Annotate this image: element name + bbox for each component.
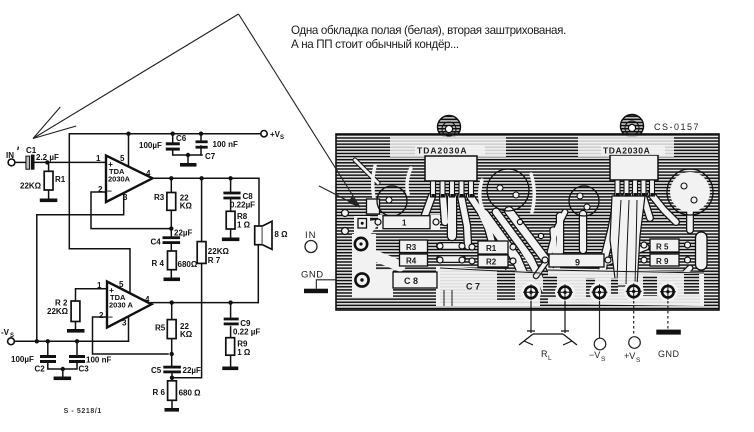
pad 3 — [594, 287, 606, 299]
pcb white trace fills left half — [352, 137, 564, 306]
wire C2 stub — [47, 341, 49, 355]
svg-text:Одна обкладка полая (белая), в: Одна обкладка полая (белая), вторая зашт… — [291, 24, 566, 37]
pcb cap footprint C9 — [549, 254, 604, 268]
svg-text:IN: IN — [305, 230, 317, 241]
wire R1 to ground — [48, 190, 50, 199]
svg-text:−: − — [107, 186, 112, 196]
node C2C3 ground — [61, 367, 65, 371]
pcb resistor footprint R? row1 — [383, 216, 430, 229]
pcb capacitor footprint at arrow — [367, 199, 380, 214]
node R3/C4 — [169, 226, 173, 230]
wire C1 to pin1 — [35, 161, 107, 163]
wire upper output — [152, 178, 259, 226]
wire R5 to C5 — [171, 339, 173, 366]
svg-text:1: 1 — [97, 281, 102, 290]
wire C8 stub — [230, 178, 232, 191]
annotation arrow to PCB capacitor — [239, 14, 361, 207]
pcb IC2 pin pads — [616, 193, 654, 196]
wire R5 stub — [171, 303, 173, 320]
pcb resistor footprint R2 — [478, 255, 508, 267]
svg-text:1 Ω: 1 Ω — [237, 221, 251, 230]
svg-text:R3: R3 — [154, 193, 165, 202]
svg-text:C2: C2 — [35, 365, 46, 374]
wire C4 to R4 — [170, 243, 172, 251]
pcb resistor footprint R1 — [478, 241, 508, 254]
svg-text:2030 A: 2030 A — [109, 301, 133, 310]
pcb resistor footprint R3 — [400, 240, 428, 253]
scan veil over pcb — [337, 135, 719, 309]
svg-text:А на ПП стоит обычный кондёр..: А на ПП стоит обычный кондёр... — [291, 38, 459, 51]
wire top rail — [69, 134, 261, 249]
resistor R2 — [47, 299, 80, 322]
pcb IC2 footprint — [610, 155, 658, 196]
ground R2 — [67, 329, 85, 333]
pcb IC1 footprint — [425, 156, 477, 197]
wire C3 bottom — [63, 363, 77, 369]
svg-text:C5: C5 — [151, 366, 162, 375]
node C6C7 ground — [186, 153, 190, 157]
wire R3 to C4 — [170, 210, 172, 236]
svg-text:R1: R1 — [55, 175, 66, 184]
svg-text:R 6: R 6 — [153, 388, 166, 397]
svg-text:5: 5 — [119, 280, 124, 289]
svg-text:22KΩ: 22KΩ — [208, 247, 230, 256]
pcb cap footprint C8 — [393, 272, 437, 288]
pcb tab pad rings — [442, 121, 639, 136]
node pin3 upper rail — [35, 339, 39, 343]
terminal -Vs — [1, 328, 14, 345]
svg-text:C7: C7 — [205, 152, 216, 161]
pcb white trace fills right half — [536, 137, 710, 306]
op-amp U2 TDA2030A — [97, 280, 152, 328]
pcb trace details — [444, 200, 637, 306]
ground R8 — [222, 238, 240, 242]
pcb bottom band top boundary — [440, 268, 704, 273]
+Vs terminal below pcb — [624, 301, 641, 364]
svg-text:22KΩ: 22KΩ — [47, 307, 69, 316]
wire C8 to R8 — [230, 199, 232, 211]
pcb pad cross marks — [523, 283, 676, 300]
GND terminal below pcb — [656, 301, 681, 359]
svg-text:22µF: 22µF — [174, 229, 193, 238]
svg-text:0.22 µF: 0.22 µF — [233, 328, 260, 337]
svg-text:100µF: 100µF — [11, 355, 34, 364]
svg-text:S: S — [601, 356, 606, 363]
wire lower output — [151, 302, 258, 304]
svg-text:IN: IN — [6, 151, 14, 160]
node C3 rail — [75, 339, 79, 343]
wire -Vs rail — [15, 340, 129, 342]
pcb IC1 label TDA2030A — [415, 145, 485, 156]
svg-text:R 7: R 7 — [208, 256, 221, 265]
node R5 top — [170, 300, 174, 304]
node C1/R1 — [45, 160, 49, 164]
wire C7 stub — [200, 134, 202, 141]
wire pin2 upper feedback loop — [91, 192, 171, 229]
wire R2 to ground — [75, 322, 77, 330]
svg-text:C4: C4 — [151, 238, 162, 247]
wire C9 stub — [230, 303, 232, 318]
pad 5 — [662, 286, 674, 298]
svg-text:C6: C6 — [176, 134, 187, 143]
resistor R6 — [153, 381, 202, 401]
svg-text:R5: R5 — [155, 324, 166, 333]
svg-text:L: L — [548, 355, 552, 362]
wire R6 to ground — [171, 400, 173, 408]
svg-text:S: S — [636, 357, 641, 364]
pcb faint texture over white bands — [390, 137, 700, 304]
pcb white trace outlines right half — [536, 194, 690, 288]
resistor R9 — [226, 338, 251, 357]
wire C9 to R9 — [230, 327, 232, 338]
svg-text:2: 2 — [99, 311, 104, 320]
pcb cap circle C — [569, 186, 599, 216]
pad 4 — [628, 286, 640, 298]
svg-text:2.2 µF: 2.2 µF — [36, 153, 59, 162]
wire pin3 lower — [128, 316, 130, 341]
pcb hatch patches in bottom band — [497, 270, 699, 300]
svg-text:2030A: 2030A — [108, 175, 131, 184]
speaker 8 ohm — [255, 221, 288, 249]
capacitor C8 — [223, 192, 255, 210]
svg-text:100µF: 100µF — [139, 141, 162, 150]
pcb resistor footprint R4 — [400, 254, 428, 266]
wire C5 to R6 — [171, 373, 173, 381]
svg-text:CS-0157: CS-0157 — [654, 122, 700, 132]
capacitor C7 — [196, 140, 238, 161]
node C6 rail — [171, 132, 175, 136]
node C5/R6/R7 — [170, 376, 174, 380]
speaker RL connection — [519, 301, 577, 345]
pad 1 — [525, 287, 537, 299]
svg-text:GND: GND — [658, 349, 680, 359]
pcb bottom pad row — [521, 281, 678, 302]
svg-text:0.22µF: 0.22µF — [230, 201, 255, 210]
svg-text:R: R — [541, 349, 548, 359]
pcb IC2 label TDA2030A — [601, 145, 665, 156]
wire +Vs jog to lower pin5 — [69, 249, 130, 294]
resistor R7 — [197, 242, 229, 265]
ground R4 — [164, 278, 181, 282]
svg-text:680Ω: 680Ω — [178, 260, 198, 269]
wire C3 stub — [76, 341, 78, 355]
svg-text:22µF: 22µF — [183, 366, 202, 375]
pad 2 — [559, 287, 571, 299]
wire R1 stub — [48, 162, 50, 171]
capacitor C5 — [151, 366, 201, 375]
node pin5 upper rail — [126, 132, 130, 136]
pcb tab hole left — [445, 125, 452, 132]
node R3 top — [169, 176, 173, 180]
wire ground stem C2 C3 — [62, 369, 64, 377]
svg-text:5: 5 — [120, 154, 125, 163]
pcb board — [336, 134, 719, 310]
svg-text:C3: C3 — [79, 365, 90, 374]
wire R3 stub — [170, 178, 172, 192]
svg-text:KΩ: KΩ — [180, 330, 193, 339]
ground R6 — [165, 408, 180, 412]
svg-text:3: 3 — [122, 319, 127, 328]
svg-text:−: − — [108, 312, 113, 322]
node R5/C5 — [170, 352, 174, 356]
capacitor C1 — [26, 146, 59, 170]
svg-text:4: 4 — [146, 169, 151, 178]
svg-text:4: 4 — [145, 295, 150, 304]
pcb small pads — [375, 219, 691, 264]
node C7 rail — [199, 132, 203, 136]
ground C6 C7 — [180, 163, 197, 167]
resistor R1 — [20, 171, 66, 190]
node C2 rail — [46, 339, 50, 343]
wire pin3 upper to -Vs rail — [37, 193, 124, 342]
svg-text:8 Ω: 8 Ω — [274, 230, 288, 239]
pcb resistor footprint R9 — [650, 254, 679, 266]
ground R9 — [222, 367, 238, 371]
wire speaker bottom to lower output — [257, 245, 259, 303]
capacitor C3 — [69, 355, 111, 374]
svg-text:100 nF: 100 nF — [213, 140, 238, 149]
pcb mount tab left — [438, 116, 461, 139]
annotation text — [291, 24, 566, 51]
pcb white trace outlines left half — [355, 160, 564, 290]
pcb left ring pads — [355, 219, 369, 287]
-Vs terminal below pcb — [589, 301, 606, 363]
svg-text:S: S — [10, 333, 14, 339]
wire C7 bottom — [200, 146, 202, 155]
wire R7 bottom jog to C5/R6 node — [172, 263, 202, 377]
svg-text:3: 3 — [123, 193, 128, 202]
svg-text:22KΩ: 22KΩ — [20, 182, 42, 191]
svg-text:R 4: R 4 — [152, 259, 165, 268]
pcb cap circle B — [487, 169, 529, 211]
wire lower pin1 to R2 — [76, 289, 108, 301]
svg-text:KΩ: KΩ — [180, 202, 193, 211]
ground R1 — [40, 199, 58, 203]
svg-text:S: S — [280, 135, 284, 141]
resistor R8 — [226, 211, 250, 229]
capacitor C4 — [151, 229, 193, 247]
pcb resistor footprint R5 — [650, 239, 679, 252]
wire input to C1 — [15, 161, 26, 163]
svg-text:GND: GND — [301, 270, 324, 281]
svg-text:S - 5218/1: S - 5218/1 — [64, 408, 102, 415]
terminal +Vs — [261, 130, 284, 141]
annotation arrow to C1 — [33, 14, 239, 139]
wire R7 top — [201, 178, 203, 241]
pcb mount tab right — [621, 115, 644, 138]
node R7 top — [199, 176, 203, 180]
wire C2 bottom — [48, 363, 63, 369]
node C9 top — [228, 300, 232, 304]
pcb cap circle A — [377, 186, 407, 216]
svg-text:100 nF: 100 nF — [86, 356, 111, 365]
wire R9 to ground — [230, 355, 232, 366]
wire R8 to ground — [230, 229, 232, 238]
op-amp U1 TDA2030A — [96, 154, 153, 202]
resistor R5 — [155, 320, 193, 339]
pcb cap circle D — [667, 169, 713, 215]
wire R4 to ground — [170, 270, 172, 278]
svg-text:2: 2 — [98, 185, 103, 194]
pcb IC1 pin pads — [432, 194, 473, 197]
wire pin2 lower feedback loop — [93, 317, 169, 354]
node C8 top — [228, 176, 232, 180]
capacitor C9 — [224, 318, 261, 337]
pcb cap stadium — [696, 232, 708, 270]
pcb input terminal IN — [305, 230, 317, 253]
svg-text:−V: −V — [589, 350, 600, 360]
resistor R4 — [152, 251, 198, 270]
node dots — [35, 132, 233, 380]
pcb left edge small pads — [342, 210, 349, 235]
capacitor C6 — [139, 134, 187, 151]
svg-text:1: 1 — [96, 154, 101, 163]
svg-text:1 Ω: 1 Ω — [237, 348, 251, 357]
resistor R3 — [154, 193, 192, 211]
input terminal IN — [6, 146, 19, 165]
pcb GND terminal — [301, 270, 336, 294]
svg-text:-V: -V — [1, 328, 10, 337]
ground C2 C3 — [54, 377, 72, 381]
wire C6 bottom — [173, 151, 202, 155]
wire ground stem C6 C7 — [187, 155, 189, 163]
wire pin5 upper — [128, 134, 130, 167]
svg-text:680 Ω: 680 Ω — [179, 389, 202, 398]
pcb tab hole right — [628, 124, 635, 131]
capacitor C2 — [11, 355, 56, 374]
wire C6 stub — [172, 134, 174, 143]
svg-text:+V: +V — [624, 351, 635, 361]
